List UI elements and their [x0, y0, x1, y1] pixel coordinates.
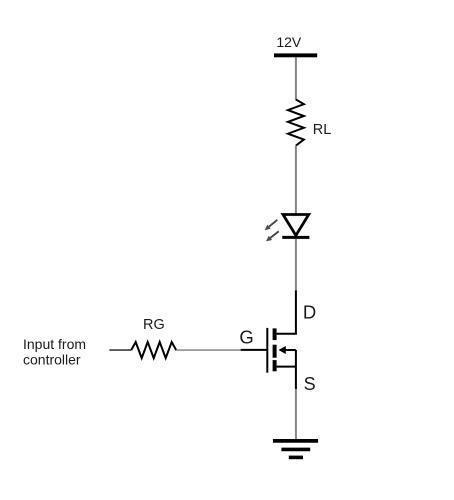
- svg-text:Input from: Input from: [23, 336, 86, 352]
- Q1 source vertical lead: [295, 350, 297, 389]
- svg-text:D: D: [303, 301, 316, 322]
- Q1 channel bar top: [273, 328, 277, 340]
- svg-text:controller: controller: [23, 352, 81, 368]
- Q1 channel bar bottom: [273, 360, 277, 371]
- Q1 gate line: [266, 328, 268, 373]
- wire LED cathode to drain: [295, 239, 297, 291]
- svg-text:12V: 12V: [276, 34, 302, 50]
- wire input stub to RG: [109, 349, 131, 351]
- LED light emission arrow 1: [265, 220, 278, 230]
- Q1 body arrow: [279, 346, 286, 354]
- svg-text:G: G: [239, 326, 253, 347]
- Q1 body lead: [285, 349, 296, 351]
- ground: [273, 441, 318, 458]
- wire RL to LED anode: [295, 146, 297, 214]
- LED D1 cathode bar: [282, 236, 309, 239]
- Q1 channel bar middle: [273, 345, 277, 358]
- Q1 gate lead: [241, 349, 268, 351]
- Q1 drain lead: [277, 290, 296, 333]
- wire source to ground: [295, 389, 297, 439]
- svg-text:S: S: [304, 374, 316, 394]
- resistor RL: [288, 100, 304, 146]
- Q1 source horizontal lead: [277, 366, 296, 368]
- wire 12V rail to RL: [295, 57, 297, 100]
- LED light emission arrow 2: [266, 231, 279, 241]
- transistor Q1 N-channel MOSFET: [241, 290, 296, 389]
- LED D1 triangle: [283, 215, 309, 236]
- resistor RG: [131, 342, 176, 358]
- power rail bar 12V: [274, 53, 317, 57]
- svg-text:RG: RG: [143, 317, 165, 333]
- wire RG to gate: [176, 349, 240, 351]
- svg-text:RL: RL: [313, 122, 332, 138]
